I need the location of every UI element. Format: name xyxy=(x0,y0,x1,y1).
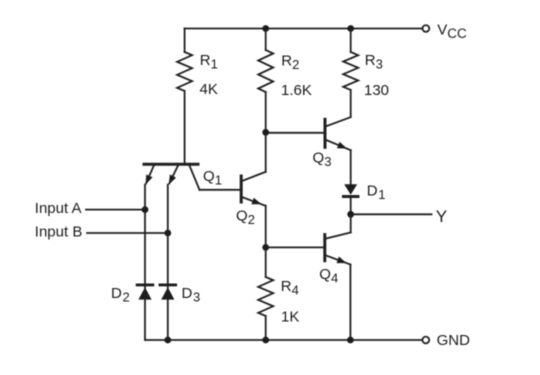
label R3 xyxy=(365,52,383,72)
wire: Q2 collector riser xyxy=(265,132,267,172)
svg-text:3: 3 xyxy=(376,57,383,72)
terminal GND (open circle) xyxy=(422,337,429,344)
junction: R4 / GND rail xyxy=(262,337,269,344)
svg-text:4K: 4K xyxy=(200,81,218,98)
svg-text:GND: GND xyxy=(437,332,471,349)
wire: Input B xyxy=(87,232,168,234)
svg-text:1: 1 xyxy=(215,173,222,188)
resistor R3 xyxy=(343,29,358,118)
svg-text:1.6K: 1.6K xyxy=(281,82,312,99)
label GND xyxy=(437,332,471,349)
label Q4 xyxy=(319,266,338,286)
junction: Q4 emitter / GND rail xyxy=(347,337,354,344)
wire: Q1 collector to Q2 base xyxy=(200,189,240,191)
svg-text:V: V xyxy=(437,22,447,39)
junction: top rail / R2 xyxy=(262,25,269,32)
terminal VCC (open circle) xyxy=(423,25,430,32)
wire: Q1 emitter 1 drop to GND rail xyxy=(144,185,146,340)
svg-text:3: 3 xyxy=(193,290,200,305)
resistor R4 xyxy=(258,247,273,340)
wire: GND bottom rail xyxy=(145,339,423,341)
value 1K xyxy=(281,309,299,326)
wire: D1 cathode to node Y xyxy=(350,197,352,215)
diode D1 xyxy=(343,184,358,196)
label Q2 xyxy=(236,208,255,228)
svg-text:3: 3 xyxy=(324,154,331,169)
transistor Q2 xyxy=(241,172,266,206)
label R2 xyxy=(281,53,299,73)
svg-text:1K: 1K xyxy=(281,309,299,326)
wire: Q4 emitter to GND rail xyxy=(349,265,351,341)
svg-text:2: 2 xyxy=(123,290,130,305)
label R4 xyxy=(281,278,299,298)
junction: Input A / Q1 emitter 1 xyxy=(142,206,149,213)
value 130 xyxy=(364,82,389,99)
svg-text:Q: Q xyxy=(236,208,248,225)
resistor R2 xyxy=(258,29,273,133)
wire: Input A xyxy=(86,209,145,211)
svg-text:4: 4 xyxy=(331,270,338,285)
value 1.6K xyxy=(281,82,312,99)
svg-text:2: 2 xyxy=(248,212,255,227)
label Y xyxy=(436,207,447,226)
wire: Q1 emitter 2 drop to GND rail xyxy=(167,185,169,340)
svg-text:4: 4 xyxy=(292,282,299,297)
junction: Input B drop / GND rail xyxy=(164,337,171,344)
label R1 xyxy=(200,52,218,72)
wire: Q3 base xyxy=(266,132,324,134)
svg-text:R: R xyxy=(281,278,292,295)
wire: Q2 emitter drop xyxy=(265,206,267,248)
svg-text:1: 1 xyxy=(378,187,385,202)
svg-text:D: D xyxy=(182,285,193,302)
svg-text:Q: Q xyxy=(203,168,215,185)
wire: Q3 emitter to D1 anode xyxy=(350,150,352,184)
junction: top rail / R3 xyxy=(347,25,354,32)
svg-text:Input A: Input A xyxy=(35,200,82,217)
transistor Q1 (multi-emitter NPN) xyxy=(144,164,200,190)
label VCC xyxy=(437,22,467,42)
junction: node Y xyxy=(347,211,354,218)
wire: Q4 base xyxy=(266,246,324,248)
label D2 xyxy=(111,285,130,305)
resistor R1 xyxy=(177,29,192,163)
svg-text:Q: Q xyxy=(313,150,325,167)
svg-text:2: 2 xyxy=(292,57,299,72)
svg-text:1: 1 xyxy=(211,57,218,72)
label D1 xyxy=(367,182,386,202)
svg-text:Y: Y xyxy=(436,207,447,226)
value 4K xyxy=(200,81,218,98)
label Q3 xyxy=(313,150,332,170)
junction: Input B / Q1 emitter 2 xyxy=(164,230,171,237)
svg-text:R: R xyxy=(200,52,211,69)
diode D3 xyxy=(160,285,176,300)
svg-text:130: 130 xyxy=(364,82,389,99)
label Q1 xyxy=(203,168,222,188)
label Input B xyxy=(35,223,83,240)
svg-text:R: R xyxy=(365,52,376,69)
svg-text:D: D xyxy=(367,182,378,199)
svg-text:R: R xyxy=(281,53,292,70)
svg-text:CC: CC xyxy=(447,26,467,41)
transistor Q3 xyxy=(325,117,351,150)
wire: node Y to Q4 collector xyxy=(350,214,352,232)
wire: VCC top rail xyxy=(185,28,423,30)
transistor Q4 xyxy=(325,233,351,265)
wire: output Y xyxy=(351,213,432,215)
junction: node R2/Q2 collector/Q3 base xyxy=(262,129,269,136)
label Input A xyxy=(35,200,82,217)
junction: node Q2 emitter/R4/Q4 base xyxy=(262,244,269,251)
label D3 xyxy=(182,285,201,305)
svg-text:Input B: Input B xyxy=(35,223,83,240)
svg-text:D: D xyxy=(111,285,122,302)
svg-text:Q: Q xyxy=(319,266,331,283)
diode D2 xyxy=(137,285,153,300)
